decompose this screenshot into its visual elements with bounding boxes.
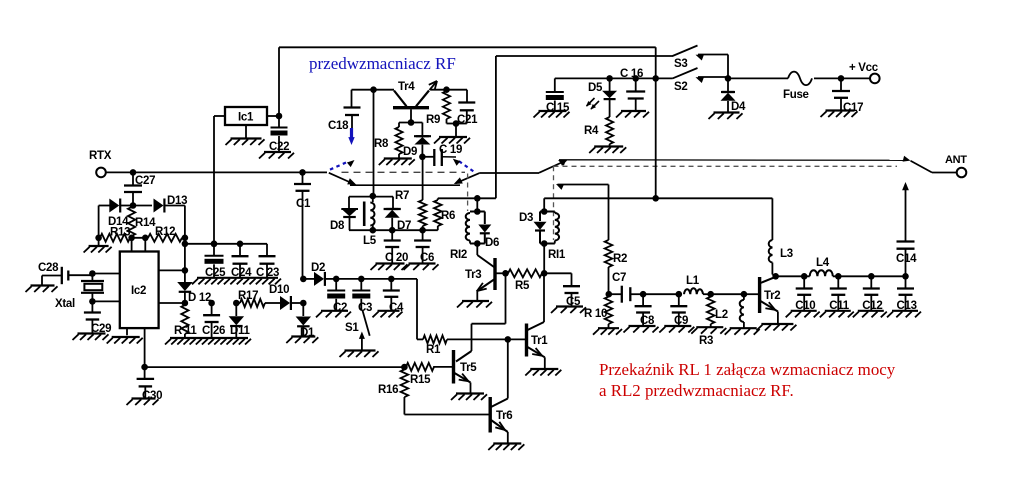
svg-text:Tr6: Tr6 (496, 410, 512, 422)
svg-text:C24: C24 (231, 267, 252, 279)
svg-text:D13: D13 (167, 195, 187, 207)
svg-text:R12: R12 (155, 226, 175, 238)
svg-text:C 19: C 19 (439, 144, 462, 156)
svg-text:D5: D5 (588, 82, 603, 94)
svg-text:RI1: RI1 (548, 249, 566, 261)
svg-text:C30: C30 (142, 390, 162, 402)
svg-text:D 12: D 12 (188, 292, 211, 304)
svg-text:C2: C2 (333, 302, 347, 314)
svg-text:D4: D4 (731, 101, 746, 113)
svg-text:R8: R8 (374, 138, 389, 150)
svg-text:L1: L1 (686, 275, 700, 287)
svg-text:C1: C1 (296, 198, 311, 210)
svg-text:Tr5: Tr5 (460, 362, 477, 374)
svg-text:C13: C13 (897, 300, 917, 312)
svg-text:D10: D10 (269, 284, 289, 296)
svg-text:S1: S1 (345, 322, 359, 334)
svg-text:C29: C29 (91, 323, 111, 335)
svg-text:R1: R1 (426, 344, 441, 356)
svg-text:R 10: R 10 (584, 308, 607, 320)
svg-text:C7: C7 (612, 272, 626, 284)
svg-text:C21: C21 (457, 114, 478, 126)
svg-text:Przekaźnik RL 1 załącza wzmacn: Przekaźnik RL 1 załącza wzmacniacz mocy (599, 360, 896, 379)
svg-text:R3: R3 (699, 335, 713, 347)
svg-text:Tr4: Tr4 (398, 81, 415, 93)
svg-text:R15: R15 (410, 374, 431, 386)
svg-text:R6: R6 (441, 210, 455, 222)
svg-text:D8: D8 (330, 220, 345, 232)
svg-text:a RL2 przedwzmacniacz RF.: a RL2 przedwzmacniacz RF. (599, 381, 794, 400)
svg-text:RTX: RTX (89, 150, 112, 162)
svg-text:D9: D9 (403, 146, 417, 158)
svg-text:RI2: RI2 (450, 249, 467, 261)
svg-text:C 15: C 15 (546, 102, 570, 114)
svg-text:C12: C12 (862, 300, 882, 312)
svg-text:Ic1: Ic1 (238, 112, 254, 124)
svg-text:C9: C9 (674, 315, 688, 327)
svg-text:L2: L2 (715, 309, 728, 321)
svg-text:C14: C14 (896, 253, 917, 265)
svg-text:D2: D2 (311, 262, 325, 274)
svg-text:R5: R5 (515, 280, 530, 292)
svg-text:R 11: R 11 (174, 325, 197, 337)
svg-text:C5: C5 (566, 296, 581, 308)
svg-text:L4: L4 (816, 257, 830, 269)
svg-text:C17: C17 (843, 102, 863, 114)
svg-text:C10: C10 (795, 300, 815, 312)
svg-text:C3: C3 (358, 302, 372, 314)
svg-text:D6: D6 (485, 237, 499, 249)
svg-text:Tr3: Tr3 (465, 269, 481, 281)
svg-text:Xtal: Xtal (55, 298, 75, 310)
svg-text:R17: R17 (238, 290, 258, 302)
svg-text:C 26: C 26 (202, 325, 225, 337)
svg-text:R2: R2 (613, 253, 627, 265)
svg-text:R13: R13 (110, 227, 130, 239)
svg-text:ANT: ANT (945, 154, 967, 166)
svg-text:R16: R16 (378, 384, 398, 396)
svg-text:C18: C18 (328, 120, 349, 132)
svg-text:D3: D3 (519, 212, 533, 224)
svg-text:C28: C28 (38, 262, 59, 274)
svg-text:+ Vcc: + Vcc (849, 62, 879, 74)
svg-text:L3: L3 (780, 248, 793, 260)
svg-text:Fuse: Fuse (783, 89, 809, 101)
svg-text:Ic2: Ic2 (131, 285, 146, 297)
svg-text:Tr2: Tr2 (764, 290, 780, 302)
svg-text:przedwzmacniacz RF: przedwzmacniacz RF (309, 54, 456, 73)
svg-text:R4: R4 (584, 125, 599, 137)
svg-text:C4: C4 (389, 302, 404, 314)
svg-text:C27: C27 (135, 175, 155, 187)
svg-text:R9: R9 (426, 114, 440, 126)
svg-text:Tr1: Tr1 (531, 335, 548, 347)
svg-text:D1: D1 (300, 327, 315, 339)
svg-text:R7: R7 (395, 190, 409, 202)
svg-text:C25: C25 (205, 267, 226, 279)
svg-text:C6: C6 (420, 252, 434, 264)
svg-text:S2: S2 (674, 81, 687, 93)
svg-text:S3: S3 (674, 58, 687, 70)
svg-text:C 20: C 20 (385, 252, 408, 264)
svg-text:R14: R14 (135, 217, 156, 229)
svg-text:C11: C11 (829, 300, 849, 312)
svg-text:D11: D11 (230, 325, 250, 337)
svg-text:C 23: C 23 (256, 267, 279, 279)
svg-text:C22: C22 (269, 141, 289, 153)
svg-text:L5: L5 (363, 235, 377, 247)
svg-text:C8: C8 (640, 315, 655, 327)
svg-text:C 16: C 16 (620, 68, 643, 80)
